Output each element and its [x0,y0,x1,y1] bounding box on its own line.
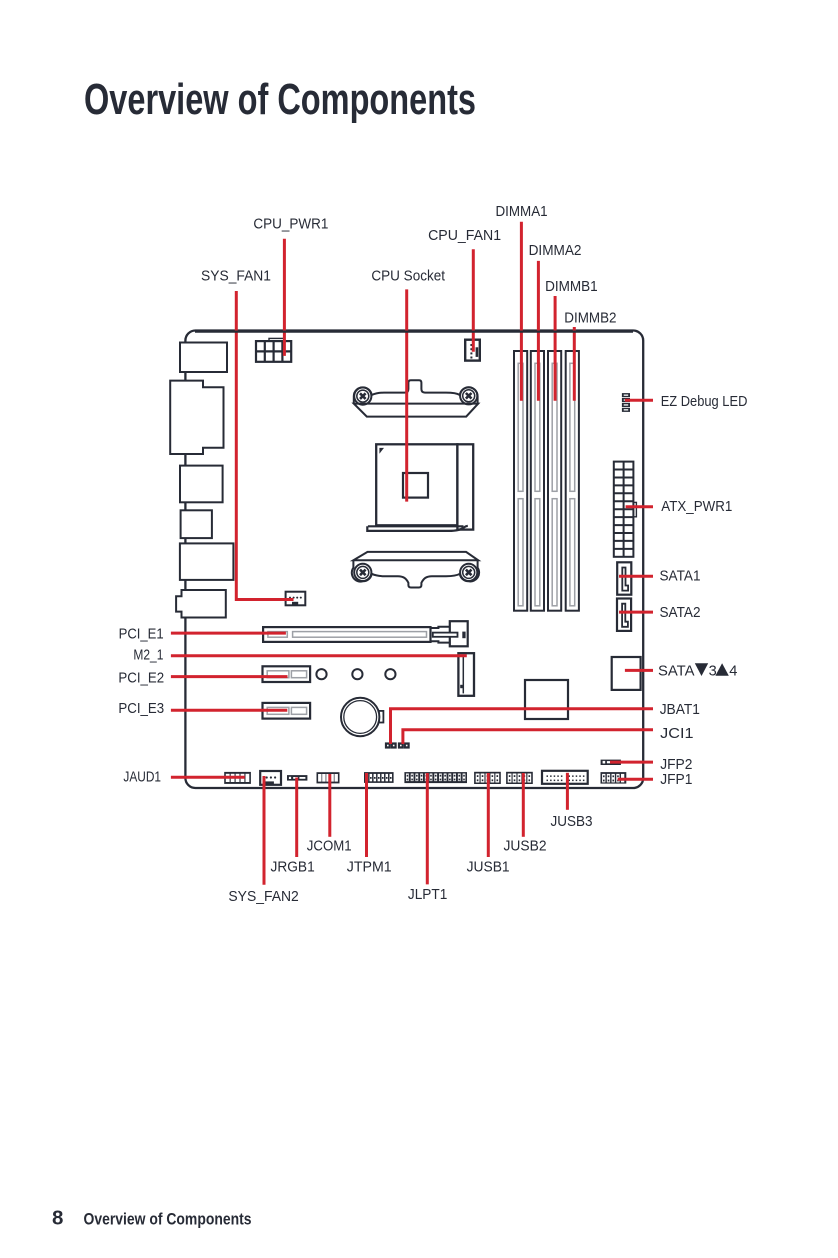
wire leader EZ Debug LED [625,399,653,402]
wire leader SATA2 [619,611,653,614]
svg-text:DIMMB2: DIMMB2 [564,310,616,326]
battery [341,698,379,736]
wire leader SATA1 [619,575,653,578]
svg-text:PCI_E2: PCI_E2 [118,671,164,687]
svg-text:PCI_E3: PCI_E3 [118,701,164,717]
header JFP1 [601,772,627,784]
svg-text:CPU_FAN1: CPU_FAN1 [428,228,501,244]
wire leader SYS_FAN2 [263,776,266,885]
CPU socket retention bracket top [354,380,478,416]
motherboard top edge [195,330,633,332]
slot PCI_E1 [263,621,468,646]
chipset block [525,680,568,719]
header JTPM1 [364,772,394,783]
wire leader JCI1 [403,730,653,744]
CPU socket retention bracket bottom [352,552,479,588]
connector CPU_FAN1 [465,340,480,361]
mounting hole 3 [385,669,395,679]
connector SYS_FAN1 [286,592,306,606]
svg-text:CPU Socket: CPU Socket [371,269,445,285]
svg-text:JUSB3: JUSB3 [551,814,593,830]
svg-text:SYS_FAN2: SYS_FAN2 [228,889,298,905]
svg-text:8: 8 [52,1207,63,1230]
svg-text:JFP1: JFP1 [660,772,692,788]
wire leader DIMMB2 [573,327,576,401]
wire leader M2_1 [171,654,467,657]
rear IO port 4 [181,510,212,538]
CPU socket body [376,444,457,525]
slot PCI_E2 [263,666,311,682]
connector SYS_FAN2 [260,771,281,785]
svg-text:PCI_E1: PCI_E1 [119,627,164,643]
CPU socket die [403,473,428,498]
DIMM slot DIMMA1 [514,351,527,611]
connector SATA1 [617,562,631,594]
wire leader CPU Socket [405,289,408,501]
wire leader JFP1 [618,778,653,781]
wire leader CPU_PWR1 [283,239,286,356]
mounting hole 2 [352,669,362,679]
slot PCI_E3 [263,703,311,719]
EZ Debug LED block [622,393,630,412]
wire leader JUSB3 [566,773,569,810]
header JLPT1 [404,772,467,783]
CPU socket pin1 triangle [379,448,384,454]
svg-text:JFP2: JFP2 [660,757,692,773]
svg-text:JCOM1: JCOM1 [307,838,352,854]
svg-text:ATX_PWR1: ATX_PWR1 [661,499,732,515]
rear IO port 1 [180,343,227,373]
header JUSB1 [474,772,501,784]
wire leader JFP2 [610,761,653,764]
wire leader JAUD1 [171,776,245,779]
jumper JCI1 [398,742,410,748]
header JCOM1 [317,772,340,783]
svg-text:EZ Debug LED: EZ Debug LED [661,394,748,410]
svg-text:DIMMB1: DIMMB1 [545,279,598,295]
wire leader JLPT1 [426,773,429,884]
svg-text:JLPT1: JLPT1 [408,887,447,903]
connector ATX_PWR1 [614,462,637,557]
wire leader SATA3/4 [625,669,653,672]
wire leader DIMMB1 [554,296,557,401]
svg-text:M2_1: M2_1 [133,647,163,663]
header JRGB1 [287,775,307,781]
rear IO port 2 (DVI) [170,381,223,454]
DIMM slot DIMMB2 [566,351,579,611]
wire leader CPU_FAN1 [472,249,475,352]
jumper JBAT1 [385,742,397,748]
wire leader JUSB1 [487,773,490,857]
rear IO port 5 [180,543,234,580]
wire leader JRGB1 [295,778,298,858]
rear IO port 3 [180,466,223,503]
mounting hole 1 [316,669,326,679]
svg-text:JUSB1: JUSB1 [467,860,510,876]
svg-text:JAUD1: JAUD1 [123,769,161,785]
label SATA3/SATA4 [658,663,737,679]
svg-text:4: 4 [729,663,737,679]
CPU socket side strip [457,444,473,529]
svg-text:JCI1: JCI1 [660,726,693,742]
motherboard outline [185,331,643,789]
DIMM slot DIMMB1 [548,351,561,611]
svg-text:JBAT1: JBAT1 [660,702,700,718]
svg-text:DIMMA1: DIMMA1 [496,204,548,220]
wire leader JUSB2 [522,773,525,837]
header JAUD1 [224,772,251,784]
svg-text:SATA: SATA [658,663,695,679]
svg-text:Overview of Components: Overview of Components [84,75,476,124]
connector SATA3/SATA4 [612,657,641,690]
CPU socket bottom rail [367,526,468,531]
wire leader PCI_E2 [171,675,288,678]
M.2 slot M2_1 [458,653,474,696]
svg-text:CPU_PWR1: CPU_PWR1 [253,216,328,232]
svg-text:Overview of Components: Overview of Components [84,1210,252,1229]
wire leader ATX_PWR1 [626,505,653,508]
svg-text:SATA2: SATA2 [660,605,701,621]
rear IO port 6 (audio) [176,590,226,618]
DIMM slot DIMMA2 [531,351,544,611]
header JUSB3 [542,771,588,784]
wire leader SYS_FAN1 [236,291,293,600]
wire leader DIMMA2 [537,261,540,401]
wire leader JTPM1 [365,773,368,857]
svg-text:SYS_FAN1: SYS_FAN1 [201,268,271,284]
header JFP2 [601,760,621,765]
wire leader PCI_E1 [171,632,286,635]
header JUSB2 [506,772,533,784]
wire leader DIMMA1 [520,222,523,401]
svg-text:3: 3 [709,663,717,679]
connector CPU_PWR1 [256,338,291,361]
svg-text:SATA1: SATA1 [660,569,701,585]
wire leader JBAT1 [391,709,654,744]
svg-text:DIMMA2: DIMMA2 [529,243,582,259]
connector SATA2 [617,599,631,631]
svg-text:JRGB1: JRGB1 [271,860,315,876]
battery holder tab [379,711,384,723]
wire leader JCOM1 [328,774,331,837]
wire leader PCI_E3 [171,709,287,712]
svg-text:JUSB2: JUSB2 [504,838,547,854]
svg-text:JTPM1: JTPM1 [347,860,392,876]
